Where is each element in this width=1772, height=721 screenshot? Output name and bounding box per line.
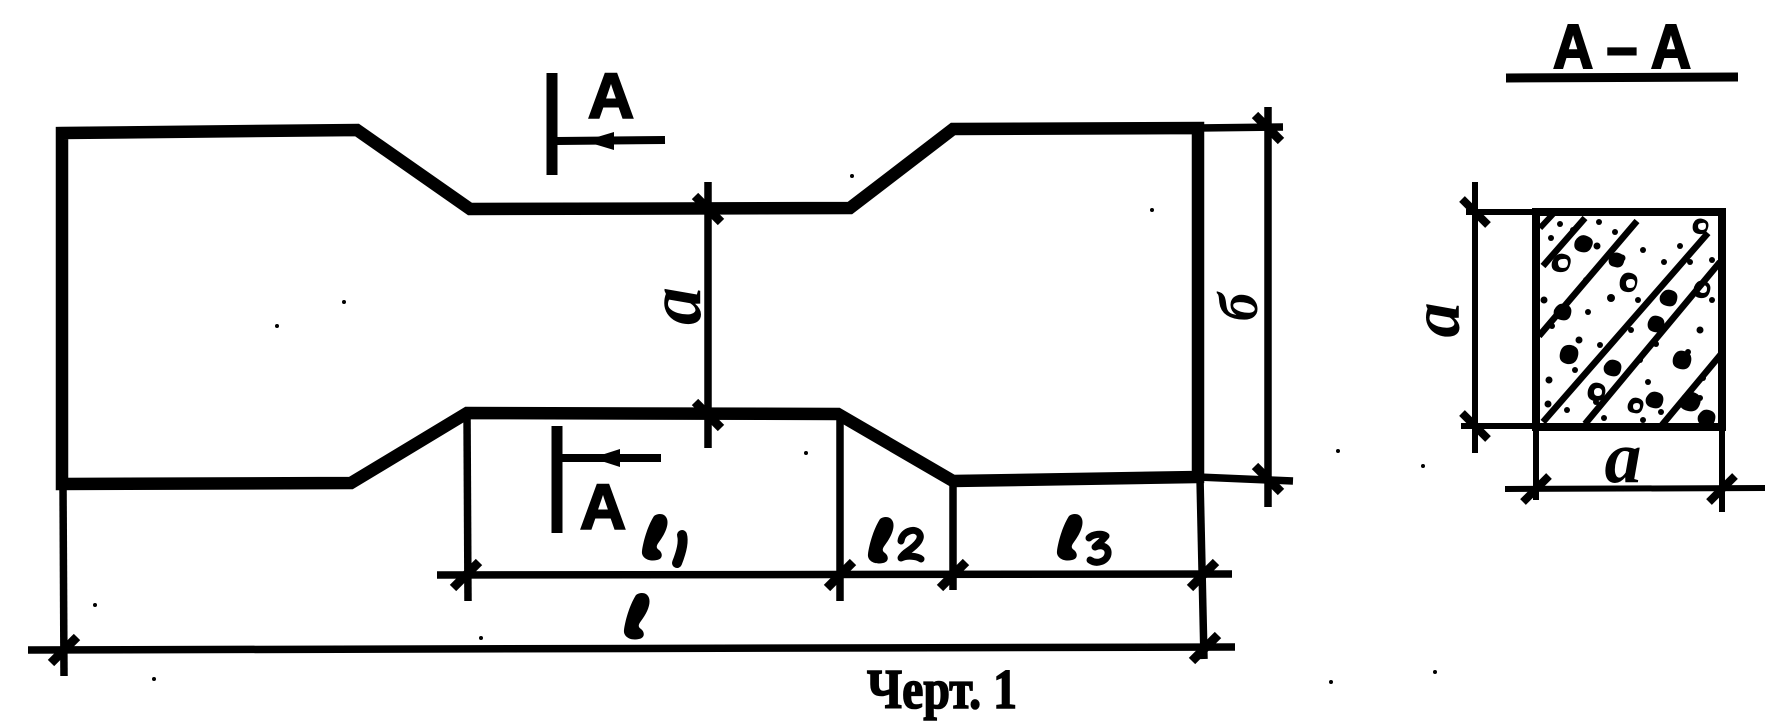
extension line b top xyxy=(1198,127,1283,128)
svg-text:A: A xyxy=(588,60,634,132)
dimension line overall l xyxy=(28,647,1235,650)
section dim ext bottom-left xyxy=(1461,423,1536,429)
svg-text:A – A: A – A xyxy=(1553,13,1691,82)
section tick bottom-right xyxy=(1709,476,1735,502)
aggregate blobs xyxy=(1552,219,1716,427)
tick overall right xyxy=(1192,635,1218,661)
svg-text:A: A xyxy=(580,471,626,543)
section mark lower: arrowhead xyxy=(592,449,620,467)
section tick a top xyxy=(1462,199,1488,225)
section tick a bottom xyxy=(1462,413,1488,439)
dimension line b (right vertical) xyxy=(1264,107,1272,507)
svg-text:Черт. 1: Черт. 1 xyxy=(867,659,1017,721)
hatch line 4 xyxy=(1585,262,1720,424)
section dim ext top-left xyxy=(1466,209,1536,215)
section mark upper: arrow line xyxy=(557,140,665,141)
hatch line 5 xyxy=(1662,353,1722,425)
section mark upper: stroke xyxy=(547,73,558,175)
section dim ext bottom left vertical xyxy=(1533,427,1539,500)
label l2 xyxy=(868,517,921,563)
extension line l2/l3 xyxy=(949,481,957,590)
hatch line 2 xyxy=(1539,221,1637,336)
label l overall xyxy=(624,593,650,639)
extension line l1/l2 xyxy=(836,413,844,601)
tick a bottom xyxy=(695,402,721,428)
speckle dots xyxy=(1541,219,1716,423)
svg-text:a: a xyxy=(633,287,717,325)
section dim line a (bottom horizontal) xyxy=(1505,488,1765,489)
extension line right xyxy=(1200,478,1204,659)
section tick bottom-left xyxy=(1523,476,1549,502)
svg-text:a: a xyxy=(1605,417,1642,499)
label l3 xyxy=(1057,514,1108,562)
tick l1/l2 xyxy=(827,562,853,588)
label l1 xyxy=(642,514,683,563)
tick b bottom xyxy=(1255,466,1281,492)
section title underline xyxy=(1506,77,1738,78)
specimen outline xyxy=(62,128,1198,484)
svg-text:б: б xyxy=(1208,291,1270,321)
scan noise dots xyxy=(93,174,1437,684)
section mark lower: stroke xyxy=(552,426,563,533)
section mark lower: arrow line xyxy=(561,454,661,462)
dimension line a (middle vertical) xyxy=(704,182,712,448)
tick l3 right xyxy=(1190,562,1216,588)
hatch line 1 xyxy=(1543,218,1585,266)
tick overall left xyxy=(51,637,77,663)
section square xyxy=(1536,212,1722,427)
section dim ext bottom right vertical xyxy=(1719,427,1725,512)
tick l1 left xyxy=(453,562,479,588)
section dim line a (left vertical) xyxy=(1472,182,1478,453)
section mark upper: arrowhead xyxy=(584,132,614,150)
extension line b bottom xyxy=(1198,477,1293,481)
extension line left (overall length) xyxy=(63,484,64,676)
tick a top xyxy=(695,196,721,222)
hatch line 3 xyxy=(1543,233,1708,422)
dimension line l1 l2 l3 xyxy=(437,574,1232,575)
extension line l1 left xyxy=(467,413,468,601)
tick b top xyxy=(1255,115,1281,141)
hatch stub corner xyxy=(1540,213,1554,228)
svg-text:a: a xyxy=(1398,303,1475,338)
tick l2/l3 xyxy=(940,562,966,588)
